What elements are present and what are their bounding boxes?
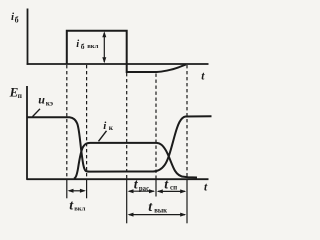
- arrowhead t_рас left: [128, 189, 134, 193]
- svg-text:вкл: вкл: [74, 206, 85, 213]
- wire extension below axis x=86.6: [86, 179, 88, 198]
- arrow t_рас: [129, 190, 154, 192]
- arrowhead t_вкл right: [80, 189, 86, 193]
- dashed line node t3 (x=126.7): [126, 73, 128, 179]
- svg-text:кэ: кэ: [46, 98, 53, 107]
- svg-text:б: б: [15, 16, 19, 25]
- axis Eп vertical (bottom plot): [26, 86, 28, 180]
- dashed line node t5 (x=187): [186, 65, 188, 179]
- arrowhead iб вкл up: [102, 31, 106, 37]
- arrow t_вкл: [69, 190, 84, 192]
- svg-text:сп: сп: [170, 184, 177, 192]
- arrowhead iб вкл down: [102, 57, 106, 63]
- wire extension below axis x=126.7: [126, 179, 128, 223]
- wire i_к waveform: [74, 143, 197, 179]
- svg-text:u: u: [38, 92, 45, 106]
- svg-text:п: п: [18, 91, 23, 100]
- dashed line node t2 (x=86.6): [86, 65, 88, 179]
- svg-text:рас: рас: [139, 185, 149, 192]
- arrow iб вкл vertical double arrow: [103, 33, 105, 62]
- svg-text:вкл: вкл: [87, 43, 98, 50]
- arrow t_вык: [129, 214, 185, 216]
- arrowhead t_сп right: [180, 189, 186, 193]
- axis iб vertical: [27, 9, 29, 65]
- wire iб pulse waveform: [67, 31, 186, 72]
- dashed line node t4 (x=156): [155, 74, 157, 180]
- arrowhead t_вык right: [180, 213, 186, 217]
- arrowhead t_вкл left: [68, 189, 74, 193]
- arrowhead t_вык left: [128, 213, 134, 217]
- svg-text:б: б: [81, 42, 85, 51]
- wire u_кэ waveform: [27, 116, 212, 171]
- wire extension below axis x=66.8: [66, 179, 68, 198]
- wire leader u_кэ: [33, 109, 41, 117]
- axis t (bottom plot): [27, 178, 209, 180]
- dashed line node t1 (x=66.8): [66, 65, 68, 179]
- wire leader i_к: [99, 131, 107, 142]
- wire extension below axis x=156: [155, 179, 157, 197]
- svg-text:вык: вык: [154, 208, 167, 215]
- svg-text:i: i: [76, 39, 79, 50]
- axis t (top plot): [27, 63, 209, 65]
- arrow t_сп: [158, 190, 185, 192]
- arrowhead t_сп left: [157, 189, 163, 193]
- arrowhead t_рас right: [149, 189, 155, 193]
- wire extension below axis x=187: [186, 179, 188, 223]
